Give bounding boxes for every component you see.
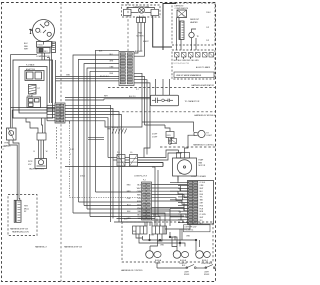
door switch SW2	[205, 265, 215, 269]
svg-text:HEATER-MULLION: HEATER-MULLION	[12, 231, 29, 234]
svg-text:CONN FZ-4 P-9: CONN FZ-4 P-9	[134, 176, 147, 178]
label: lamp captions	[155, 259, 209, 265]
lamp LP2	[146, 251, 161, 259]
ff control switch block 1	[133, 226, 148, 234]
svg-text:RELAY: RELAY	[28, 94, 35, 97]
wire: feed from left rail to relay	[11, 54, 25, 56]
svg-text:YEL: YEL	[200, 197, 203, 199]
run capacitor C1	[152, 98, 173, 103]
svg-text:4 BLK: 4 BLK	[80, 176, 86, 178]
mullion heater element	[14, 200, 21, 222]
wire: fan motor to plug	[140, 16, 144, 18]
wire: fan box bold lead right	[153, 16, 172, 47]
svg-text:ADAPTIVE: ADAPTIVE	[26, 68, 36, 71]
svg-text:DEFROST: DEFROST	[190, 19, 200, 21]
wire: compartment bottom exits to valve plug	[26, 118, 45, 133]
wire: connector B right exits going down	[134, 73, 150, 154]
svg-text:HTR: HTR	[24, 206, 29, 208]
svg-text:SW-FF: SW-FF	[204, 274, 209, 276]
wire: drain heater feed continues	[9, 140, 19, 197]
wire: evap fan feeds	[163, 139, 188, 167]
wire: separator fz control	[160, 146, 216, 148]
svg-text:WHT: WHT	[200, 217, 204, 219]
condenser fan motor enclosure (dashed)	[122, 5, 161, 17]
wire: module-to-board weave extras	[138, 163, 185, 223]
svg-text:WHT BLK ORN RED YEL GRN: WHT BLK ORN RED YEL GRN	[174, 60, 200, 62]
start relay RLY1	[37, 48, 50, 54]
svg-text:VIO: VIO	[138, 218, 142, 220]
label: evaporator fan motor	[199, 159, 206, 168]
fz light bulb LP1	[194, 130, 205, 137]
control box inner enclosure	[19, 67, 47, 114]
svg-text:MOTOR: MOTOR	[199, 165, 206, 167]
machine compartment enclosure	[13, 60, 53, 118]
thermistor TH1	[168, 138, 171, 145]
auxiliary relay block	[27, 94, 41, 107]
lamp LP4	[196, 251, 211, 259]
svg-text:ORN: ORN	[137, 191, 142, 193]
terminal components row	[175, 53, 214, 58]
label: boxed part number	[174, 72, 214, 78]
svg-text:BLU: BLU	[137, 215, 141, 217]
svg-text:MULL: MULL	[24, 208, 29, 210]
label: connector B row codes	[110, 54, 139, 91]
connector: fz module stub	[170, 139, 177, 144]
wire: fz light loop	[142, 122, 194, 132]
svg-text:VALVE-WTR SOL: VALVE-WTR SOL	[29, 168, 44, 171]
svg-text:WTR: WTR	[28, 161, 33, 163]
wire: fan plug leads down to connector B	[134, 23, 145, 57]
terminal strip enclosure (dashed)	[172, 50, 215, 79]
wire: separator harness-fz module	[122, 111, 216, 113]
wire: fz module drops	[143, 155, 145, 158]
svg-text:HARNESS-FZ CONTROL: HARNESS-FZ CONTROL	[193, 144, 214, 147]
svg-text:OVLD: OVLD	[37, 45, 43, 47]
connector C socket half	[130, 155, 138, 167]
wire: defrost leads down to terminal row	[177, 18, 197, 51]
svg-text:LIGHT-FF: LIGHT-FF	[201, 263, 209, 265]
mullion heater enclosure (dashed)	[8, 195, 37, 236]
capacitor block left	[124, 9, 132, 15]
svg-text:4 WHT: 4 WHT	[143, 41, 149, 43]
wire: dotted sensor run	[65, 121, 142, 198]
overload protector	[37, 42, 53, 48]
wire: relay to compartment	[24, 53, 50, 60]
label: board tail box	[184, 225, 211, 232]
wire: fan internal leads	[127, 8, 155, 13]
svg-text:DEFROST: DEFROST	[175, 5, 185, 7]
svg-text:BLK WHT: BLK WHT	[135, 51, 143, 53]
svg-text:LT GRN: LT GRN	[200, 214, 207, 216]
svg-text:BULB-A: BULB-A	[155, 259, 162, 262]
wire: verticals to ff box	[114, 219, 155, 227]
svg-text:BLK 2-1: BLK 2-1	[129, 96, 136, 98]
wire: defrost bold lead	[163, 4, 176, 51]
svg-text:RED: RED	[24, 46, 29, 48]
label: drf wire notes	[152, 134, 158, 139]
wire: left rail down	[11, 55, 56, 128]
label: defrost heater	[190, 19, 200, 24]
svg-text:FAN: FAN	[138, 32, 142, 35]
label: connector halves	[117, 152, 132, 154]
svg-text:BULB-B: BULB-B	[180, 260, 187, 262]
svg-text:P-1 MAIN: P-1 MAIN	[26, 64, 35, 67]
defrost heater enclosure (dashed)	[172, 3, 215, 45]
svg-text:BULB-C: BULB-C	[202, 260, 209, 262]
connector: control board edge P2	[188, 181, 214, 225]
wire: to relay	[165, 125, 170, 132]
label: heater box caption	[10, 228, 29, 234]
wire: ff box internal drops	[136, 219, 200, 248]
label: left margin codes	[3, 146, 8, 151]
wire: junction pair links	[65, 150, 182, 222]
svg-text:ALIGN TO MARK: ALIGN TO MARK	[196, 66, 211, 69]
wire: section separator vertical left	[60, 3, 62, 282]
svg-text:4 DRF: 4 DRF	[152, 134, 158, 136]
connector: evap fan plug	[177, 153, 190, 159]
wire: separator harness-evaporator	[108, 87, 216, 89]
svg-text:LINE UP HERE W/HARNESS: LINE UP HERE W/HARNESS	[176, 74, 202, 77]
ff control enclosure (dashed)	[122, 222, 213, 262]
wire: bundle lower fan-out to connectors	[73, 192, 170, 229]
wire: bulb return	[188, 135, 194, 139]
connector B (harness junction)	[119, 52, 134, 86]
svg-text:2: 2	[70, 154, 71, 156]
svg-text:YEL: YEL	[137, 198, 141, 200]
connector C plug half	[117, 155, 125, 167]
label: compressor text block left	[24, 43, 29, 51]
defrost timer element (hatched)	[29, 85, 41, 95]
label: defrost assembly	[175, 5, 189, 10]
svg-text:CONDENSER FAN: CONDENSER FAN	[133, 5, 150, 8]
wire: switch rail	[157, 262, 216, 268]
wire: terminal row stubs	[177, 57, 191, 60]
defrost relay block	[166, 132, 174, 138]
svg-text:WHT: WHT	[110, 60, 114, 62]
compressor (shell view)	[33, 20, 55, 42]
border frame (dashed sheet outline)	[2, 3, 216, 282]
condenser fan motor M1	[139, 7, 145, 13]
label: fan motor	[136, 32, 144, 38]
wire: connector A rows to right bundle	[65, 105, 142, 222]
svg-text:TAN: TAN	[137, 210, 141, 213]
junction dots	[149, 236, 197, 244]
svg-text:P-12: P-12	[70, 149, 74, 151]
svg-text:P-2: P-2	[143, 180, 146, 182]
svg-text:RED: RED	[137, 194, 142, 196]
thermal fuse TF1	[189, 12, 212, 42]
wire: heater leads	[17, 197, 20, 201]
wire: harness bundle (upper corners, verticals, lower corners)	[73, 50, 119, 216]
wire: compartment rail to connector B rows	[56, 77, 120, 81]
svg-text:RLY: RLY	[44, 51, 48, 53]
ff control switch block 2	[152, 226, 167, 234]
svg-text:J-5: J-5	[130, 152, 132, 154]
svg-text:HARNESS-WTR VLV: HARNESS-WTR VLV	[10, 228, 29, 231]
connector: valve plug	[37, 133, 46, 140]
svg-text:2 DRF: 2 DRF	[152, 136, 158, 138]
svg-text:SW-FF: SW-FF	[184, 274, 189, 276]
svg-text:BRN: BRN	[137, 201, 142, 203]
svg-text:P-3 2W E-6: P-3 2W E-6	[185, 229, 194, 231]
svg-text:BD-FD 8-2: BD-FD 8-2	[100, 76, 109, 78]
label: bundle codes	[70, 149, 86, 178]
wire: capacitor feeds from terminal strip	[156, 79, 170, 95]
svg-text:MOTOR: MOTOR	[136, 35, 144, 37]
svg-text:P-7: P-7	[136, 89, 139, 91]
svg-text:1 2 3 4 5 6 7 8: 1 2 3 4 5 6 7 8	[174, 63, 189, 65]
lamp LP3	[173, 251, 188, 259]
label: fz light	[207, 132, 213, 137]
svg-text:HARNESS-WTR VLV: HARNESS-WTR VLV	[64, 246, 83, 249]
terminal block TB1	[25, 68, 44, 81]
wire: plug to valve leads	[34, 140, 48, 159]
wire: lamp feeds	[139, 224, 196, 252]
svg-text:HTR-: HTR-	[5, 143, 10, 145]
svg-text:WHT: WHT	[104, 96, 108, 98]
wire: section separator vertical top-middle	[127, 3, 129, 52]
harness twist cluster	[88, 127, 127, 140]
label: switch captions	[182, 263, 213, 276]
drain heater DH1	[5, 128, 17, 147]
wire: evap fan return	[177, 176, 179, 181]
wire: connector D right exits	[152, 185, 188, 218]
svg-text:1 W: 1 W	[206, 27, 209, 29]
svg-text:LIGHT-FF 120V: LIGHT-FF 120V	[185, 227, 198, 229]
label: connector D row codes	[127, 184, 142, 220]
defrost heater element (vertical)	[179, 21, 184, 40]
run capacitor section box	[151, 95, 179, 105]
water valve WV1	[28, 159, 47, 169]
svg-text:HARNESS-EVAPORATOR: HARNESS-EVAPORATOR	[191, 84, 214, 87]
label: terminal row captions	[174, 60, 211, 69]
svg-text:SPLICE: SPLICE	[112, 127, 119, 129]
door switch SW1	[186, 265, 196, 269]
svg-text:W: W	[46, 151, 48, 153]
connector D (main board harness)	[142, 182, 152, 220]
wire: compressor leads down right side	[47, 53, 52, 104]
svg-text:HARNESS-LT: HARNESS-LT	[35, 246, 48, 249]
defrost thermostat DT1	[177, 10, 187, 21]
svg-text:LT: LT	[3, 149, 5, 151]
svg-text:LIGHT: LIGHT	[207, 135, 213, 137]
evaporator fan motor M2	[173, 158, 197, 176]
svg-text:2 W: 2 W	[206, 40, 209, 42]
connector: fan plug	[137, 18, 146, 23]
svg-text:WHT: WHT	[200, 188, 204, 190]
svg-text:LIGHT: LIGHT	[156, 263, 161, 265]
svg-text:HARNESS-FZ MODULE: HARNESS-FZ MODULE	[194, 114, 215, 117]
svg-text:2W: 2W	[179, 173, 182, 175]
svg-text:LT BLU: LT BLU	[200, 182, 206, 184]
svg-text:P-5: P-5	[117, 152, 120, 154]
wire: compressor shell lead	[31, 31, 33, 34]
svg-text:HARNESS-FF CONTROL: HARNESS-FF CONTROL	[121, 269, 143, 272]
label: heater vertical caption	[24, 206, 29, 214]
svg-text:CONN TO BOARD: CONN TO BOARD	[191, 175, 207, 178]
wire: icemaker dashed stub	[55, 127, 57, 160]
connector A (compartment bulkhead)	[55, 103, 65, 123]
capacitor block right	[151, 9, 159, 15]
wire: connector A to capacitor rows	[65, 98, 151, 101]
svg-text:HEATER: HEATER	[190, 21, 198, 24]
svg-text:EVAP: EVAP	[199, 159, 204, 162]
svg-text:SW: SW	[133, 231, 136, 233]
wire: compartment right rail	[55, 60, 57, 103]
label: scattered wire color codes	[66, 51, 165, 247]
wire: connector A left stubs	[47, 105, 55, 121]
wire: board connector feed stubs	[170, 176, 189, 223]
run capacitor lead element	[52, 42, 56, 53]
svg-text:TO CAPACITOR: TO CAPACITOR	[185, 100, 200, 103]
